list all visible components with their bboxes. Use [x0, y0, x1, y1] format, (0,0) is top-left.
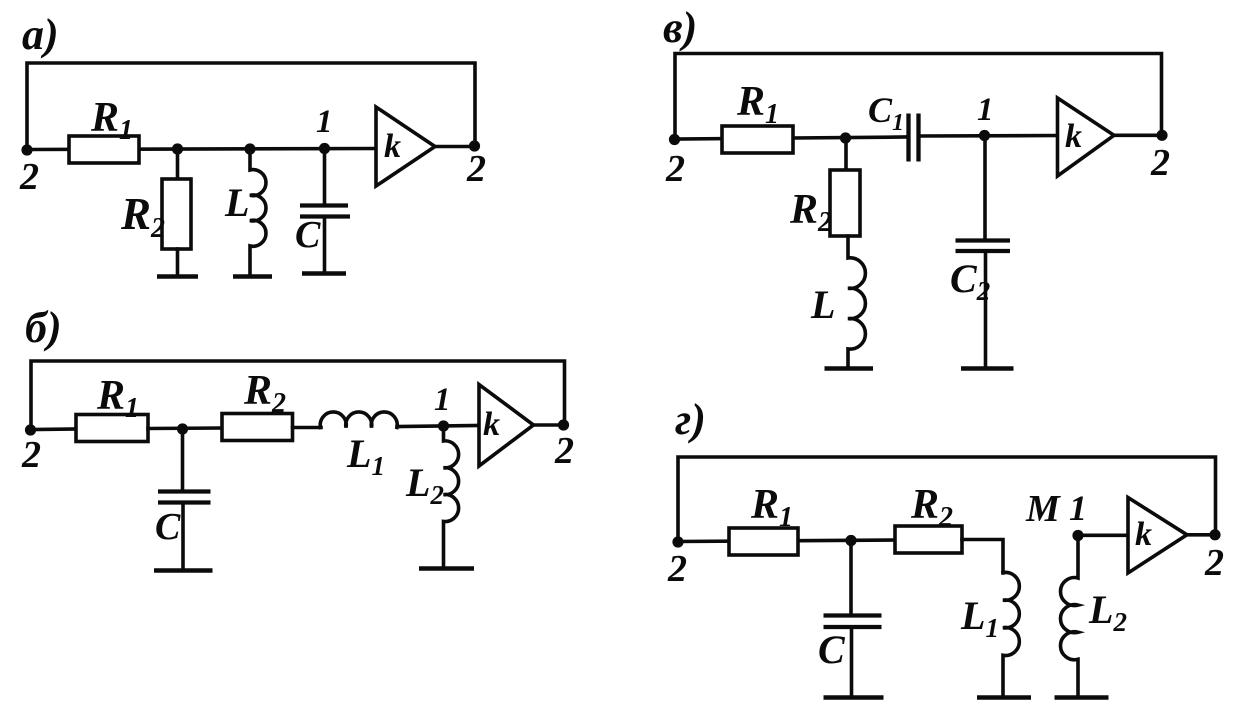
svg-text:L2: L2 — [405, 460, 444, 510]
svg-text:R1: R1 — [90, 95, 133, 146]
svg-text:R2: R2 — [120, 189, 165, 244]
svg-text:L: L — [810, 282, 835, 327]
capacitor C (b) plates — [158, 489, 211, 493]
wire: R2 to L1 (b) — [293, 426, 322, 430]
wire: R2 to ground (a) — [176, 249, 180, 275]
feedback wire (b) — [31, 361, 565, 430]
svg-text:R2: R2 — [789, 187, 832, 238]
svg-text:C: C — [818, 627, 846, 672]
op-amp k (b) — [479, 385, 534, 467]
svg-text:L: L — [224, 180, 249, 225]
inductor L2 (g) — [1060, 536, 1078, 696]
svg-text:k: k — [483, 406, 500, 443]
svg-text:R1: R1 — [96, 373, 139, 424]
node 1 dot (g) — [1072, 530, 1083, 541]
wire: node 1 to amplifier (g) — [1078, 533, 1128, 537]
inductor L (a) — [250, 149, 266, 275]
wire: node 2 to R1 (b) — [31, 427, 78, 431]
wire: main input line node 2 to amplifier (a) — [27, 149, 376, 150]
wire: amplifier output to node 2 (b) — [534, 423, 565, 427]
node 1 dot (v) — [979, 130, 990, 141]
svg-text:L1: L1 — [960, 593, 999, 643]
svg-text:L2: L2 — [1088, 587, 1127, 637]
wire: amplifier output to node 2 (v) — [1114, 134, 1162, 138]
svg-text:R2: R2 — [910, 482, 953, 533]
capacitor C1 (v) plates — [906, 114, 910, 162]
resistor R2 (a) — [162, 179, 191, 249]
inductor L2 (b) — [444, 426, 459, 567]
node 1 dot (b) — [438, 420, 449, 431]
resistor R2 (v) — [830, 170, 860, 236]
wire: L1 to amplifier (b) — [397, 426, 479, 427]
node 2 dot (a left) — [21, 144, 32, 155]
ground (v C2) — [961, 366, 1014, 371]
junction dot to L (a) — [244, 143, 255, 154]
svg-text:k: k — [1065, 118, 1082, 155]
node 2 dot (b left) — [25, 424, 36, 435]
svg-text:2: 2 — [21, 434, 41, 476]
svg-text:1: 1 — [434, 382, 451, 418]
op-amp k (v) — [1058, 98, 1115, 176]
wire: junction to R2 (v) — [844, 138, 848, 171]
junction dot C (b) — [177, 423, 188, 434]
resistor R1 (b) — [76, 415, 148, 442]
svg-text:k: k — [1135, 516, 1152, 553]
inductor L1 (g) — [1003, 572, 1019, 695]
svg-text:k: k — [384, 128, 401, 165]
svg-text:R2: R2 — [243, 368, 286, 419]
ground (g L1) — [977, 695, 1031, 700]
ground (a C) — [302, 271, 346, 276]
wire: amplifier output to node 2 (a) — [435, 145, 475, 149]
ground (b C) — [154, 568, 213, 573]
node 2 dot (a right) — [469, 140, 480, 151]
wire: C1 to amplifier (v) — [921, 134, 1058, 138]
ground (g C) — [824, 695, 884, 700]
capacitor C2 (v) plates — [956, 238, 1011, 242]
wire: node 2 to C1 (v) — [675, 137, 906, 139]
capacitor C (g): stem — [849, 541, 853, 613]
svg-text:1: 1 — [1069, 488, 1087, 528]
op-amp k (g) — [1128, 498, 1187, 574]
node 2 dot (v left) — [669, 134, 680, 145]
junction dot R2 (v) — [840, 132, 851, 143]
svg-text:C1: C1 — [868, 90, 904, 136]
ground (g L2) — [1055, 695, 1109, 700]
svg-text:R1: R1 — [736, 79, 779, 130]
capacitor C (a) plates — [300, 203, 348, 207]
svg-text:R1: R1 — [750, 482, 793, 533]
svg-text:1: 1 — [316, 104, 333, 140]
feedback wire (v) — [675, 54, 1162, 140]
capacitor C (a): stem from node 1 — [323, 149, 327, 204]
wire: junction to R2 (a) — [176, 149, 180, 180]
wire: R1 to R2 (b) — [148, 426, 222, 430]
svg-text:C: C — [295, 214, 321, 256]
wire: C to ground (b) — [181, 506, 185, 568]
node 2 dot (g left) — [672, 536, 683, 547]
junction dot to R2 (a) — [172, 143, 183, 154]
svg-text:2: 2 — [1204, 542, 1224, 584]
svg-text:2: 2 — [665, 148, 685, 190]
svg-text:а): а) — [22, 10, 59, 59]
wire: C to ground (g) — [850, 629, 854, 694]
wire: node 2 to R2 (g) — [678, 540, 895, 542]
wire: amplifier output to node 2 (g) — [1187, 533, 1216, 537]
node 2 dot (b right) — [558, 419, 569, 430]
inductor L (v) — [848, 236, 865, 367]
svg-text:в): в) — [663, 3, 697, 52]
capacitor C (g) plates — [824, 613, 882, 617]
feedback wire (a): left riser, top run, right riser — [27, 63, 475, 150]
svg-text:2: 2 — [667, 548, 687, 590]
resistor R2 (g) — [895, 526, 962, 553]
svg-text:г): г) — [675, 395, 706, 444]
capacitor C (b): stem — [181, 429, 185, 489]
resistor R1 (a) — [69, 136, 139, 163]
ground (a R2) — [157, 274, 198, 279]
capacitor C2 (v): stem — [983, 136, 987, 239]
junction dot C (g) — [845, 535, 856, 546]
svg-text:2: 2 — [554, 430, 574, 472]
inductor L1 (b) — [320, 412, 397, 428]
resistor R2 (b) — [222, 414, 293, 441]
svg-text:б): б) — [25, 303, 62, 352]
wire: C2 to ground (v) — [984, 253, 988, 366]
ground (a L) — [233, 274, 272, 279]
wire: R2 to L1 (g) — [962, 540, 1003, 574]
svg-text:1: 1 — [977, 92, 994, 128]
node 2 dot (g right) — [1209, 529, 1220, 540]
ground (v L) — [825, 366, 874, 371]
svg-text:2: 2 — [466, 148, 486, 190]
svg-text:2: 2 — [1150, 142, 1170, 184]
node 2 dot (v right) — [1156, 130, 1167, 141]
svg-text:M: M — [1025, 488, 1061, 530]
svg-text:2: 2 — [19, 156, 39, 198]
ground (b L2) — [419, 566, 474, 571]
node 1 dot (a) — [319, 143, 330, 154]
wire: C to ground (a) — [323, 219, 327, 271]
resistor R1 (g) — [729, 528, 798, 555]
svg-text:C: C — [155, 506, 181, 548]
feedback wire (g) — [678, 457, 1216, 542]
op-amp k (a) — [376, 107, 435, 186]
resistor R1 (v) — [722, 126, 793, 153]
svg-text:L1: L1 — [346, 431, 385, 481]
